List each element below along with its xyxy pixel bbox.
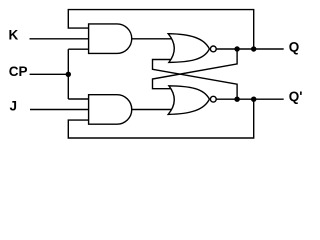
AND gate 2 (bottom, inputs CP/J/Q'-feedback) xyxy=(89,95,132,125)
junction dot NOR2 output / cross wire xyxy=(234,97,239,102)
NOR gate 1 (top, output Q) xyxy=(168,34,209,63)
wire: NOR1 output to Q xyxy=(216,48,283,50)
wire: NOR2 output to Q' xyxy=(216,98,283,100)
wire: AND2 output to NOR2 xyxy=(132,109,176,111)
junction dot NOR1 output / cross wire xyxy=(234,46,239,51)
svg-text:Q': Q' xyxy=(289,89,303,104)
NOR1 inverter bubble xyxy=(210,46,216,52)
wire: Q' feedback bottom loop xyxy=(68,99,253,138)
wire: cross-couple NOR2 output to NOR1 input xyxy=(153,60,238,100)
wire: cross-couple NOR1 output to NOR2 input xyxy=(153,49,238,89)
wire: CP vertical branch xyxy=(67,49,69,99)
wire: CP stub to AND2 xyxy=(68,98,88,100)
svg-text:J: J xyxy=(10,98,18,113)
wire: CP stub to AND1 xyxy=(68,48,88,50)
svg-text:K: K xyxy=(9,28,19,43)
wire: K input xyxy=(30,38,89,40)
NOR gate 2 (bottom, output Q') xyxy=(168,86,209,115)
junction dot Q / top feedback xyxy=(251,46,256,51)
wire: AND1 output to NOR1 xyxy=(132,38,176,40)
AND gate 1 (top, inputs K/CP/Q-feedback) xyxy=(89,24,132,54)
NOR2 inverter bubble xyxy=(210,96,216,102)
svg-text:CP: CP xyxy=(9,64,28,79)
junction dot Q' / bottom feedback xyxy=(251,97,256,102)
wire: J input xyxy=(30,109,89,111)
svg-text:Q: Q xyxy=(289,39,300,54)
wire: Q feedback top loop xyxy=(68,10,253,49)
wire: CP input xyxy=(30,73,69,75)
junction dot CP xyxy=(66,72,71,77)
